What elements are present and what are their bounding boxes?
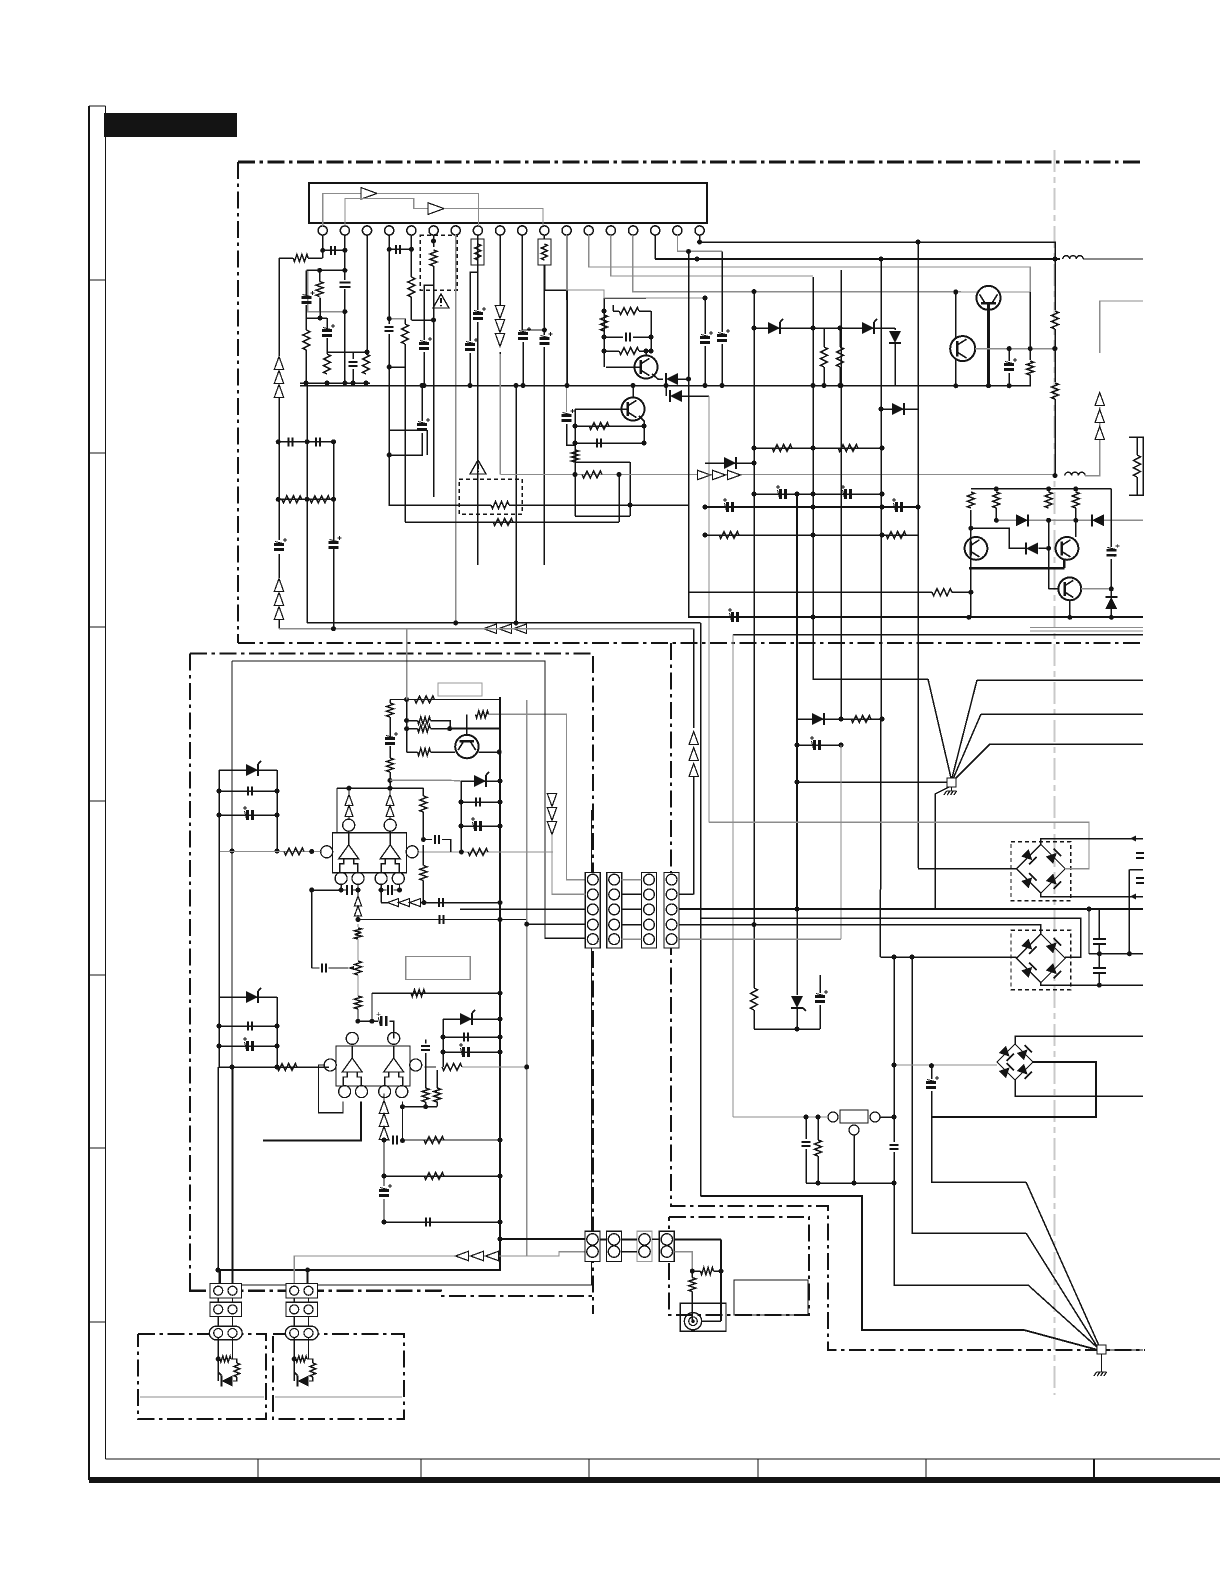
wire — [817, 1117, 819, 1140]
junction — [811, 615, 816, 620]
speaker unit L outline — [138, 1334, 266, 1419]
resistor R18 — [1052, 311, 1059, 329]
wire — [894, 1152, 1028, 1285]
op-amp IC1 pin — [392, 872, 404, 884]
junction — [752, 492, 757, 497]
capacitor C53 — [426, 1218, 430, 1227]
wire — [499, 352, 501, 367]
wire — [665, 386, 667, 397]
junction — [1053, 473, 1058, 478]
capacitor C55 — [322, 964, 326, 973]
junction — [404, 726, 409, 731]
wire pin9 route — [499, 354, 501, 475]
U1 pin 18 — [695, 226, 704, 235]
wire — [357, 915, 359, 920]
junction — [397, 888, 402, 893]
wire pin12 route — [567, 235, 605, 298]
wire — [357, 890, 359, 897]
signal arrows up — [274, 357, 283, 370]
wire — [1088, 909, 1090, 954]
op-amp IC1 element — [339, 833, 359, 859]
wire — [1085, 407, 1100, 476]
adjust label box — [438, 683, 482, 696]
wire — [217, 1067, 219, 1270]
junction — [422, 383, 427, 388]
junction — [838, 383, 843, 388]
resistor R54 — [424, 1173, 444, 1180]
wire — [931, 1062, 1096, 1117]
junction — [752, 446, 757, 451]
wire — [1106, 1349, 1143, 1351]
trimmer resistor R61 — [355, 961, 362, 975]
electrolytic capacitor C32 — [926, 1083, 936, 1088]
junction — [431, 239, 436, 244]
resistor R52 — [434, 1088, 441, 1102]
wire IC2 feedback loop — [319, 1065, 344, 1113]
wire — [1089, 953, 1143, 955]
wire — [309, 1377, 313, 1381]
thermistor TH1 — [471, 239, 484, 265]
main board outline bottom — [238, 642, 1143, 644]
capacitor C44 — [440, 915, 444, 924]
wire — [543, 347, 545, 565]
wire Q2 collector — [632, 386, 634, 399]
border tick — [89, 1147, 106, 1149]
junction — [968, 590, 973, 595]
resistor R24 — [719, 532, 739, 539]
junction — [217, 813, 222, 818]
wire — [693, 629, 695, 728]
junction — [498, 991, 503, 996]
wire — [462, 1066, 527, 1068]
wire — [880, 259, 882, 720]
line filter terminal — [828, 1112, 838, 1122]
resistor R40 — [418, 725, 431, 732]
diode D7 — [1092, 514, 1104, 526]
resistor R26 — [967, 492, 974, 508]
bottom border tick — [420, 1459, 422, 1477]
wire — [219, 851, 321, 853]
U1 pin 17 — [673, 226, 682, 235]
junction — [388, 778, 393, 783]
wire — [319, 270, 321, 281]
signal arrow — [547, 808, 556, 821]
junction — [400, 1104, 405, 1109]
connector CN9 socket — [209, 1326, 242, 1340]
wire — [431, 721, 451, 729]
bottom border tick — [257, 1459, 259, 1477]
wire — [333, 442, 335, 540]
wire — [1110, 489, 1112, 547]
junction — [498, 1138, 503, 1143]
wire — [404, 319, 406, 324]
wire — [326, 338, 328, 354]
wire — [805, 1149, 807, 1183]
wire — [575, 425, 644, 427]
junction — [986, 383, 991, 388]
wire — [307, 1359, 313, 1363]
op-amp IC2 pin — [379, 1086, 391, 1098]
diode D9 — [1105, 597, 1117, 609]
junction — [686, 249, 691, 254]
capacitor C43 — [439, 898, 443, 907]
wire pin6 drop — [433, 235, 435, 247]
wire — [461, 825, 500, 827]
wire — [522, 504, 689, 506]
wire — [812, 277, 814, 617]
resistor R33 — [1134, 455, 1141, 477]
junction — [686, 377, 691, 382]
wire — [389, 366, 405, 368]
bridge rectifier BR3 — [997, 1044, 1033, 1080]
resistor R22 — [772, 445, 792, 452]
op-amp IC1 pin — [321, 846, 333, 858]
junction — [382, 1174, 387, 1179]
junction — [1053, 346, 1058, 351]
electrolytic capacitor C14 — [518, 334, 528, 339]
fan unit outline — [669, 1217, 809, 1315]
wire — [612, 305, 614, 311]
wire — [1110, 609, 1112, 617]
junction — [275, 849, 280, 854]
transistor Q8 — [455, 735, 478, 758]
signal arrow left — [471, 1251, 484, 1260]
wire — [460, 908, 585, 910]
wire — [693, 776, 695, 894]
junction — [811, 505, 816, 510]
wire — [692, 1270, 700, 1272]
junction — [573, 472, 578, 477]
wire — [477, 322, 479, 565]
wire — [1008, 349, 1010, 361]
junction — [811, 492, 816, 497]
wire — [329, 967, 349, 969]
wire — [1136, 477, 1138, 495]
zener diode ZD4 — [246, 764, 258, 776]
junction — [447, 726, 452, 731]
capacitor C3 — [339, 282, 350, 287]
capacitor C6 — [349, 362, 358, 366]
wire — [622, 1251, 638, 1253]
zener diode ZD2 — [862, 322, 874, 334]
wire — [796, 909, 798, 995]
capacitor C47 — [464, 1033, 468, 1042]
wire — [443, 1036, 500, 1038]
resistor R9 — [619, 308, 639, 315]
U1 pin 12 — [562, 226, 571, 235]
junction — [305, 497, 310, 502]
signal arrows down — [495, 334, 504, 347]
wire — [353, 884, 358, 890]
wire — [603, 298, 605, 367]
wire — [305, 350, 307, 383]
signal arrows up — [274, 579, 283, 592]
junction — [305, 1268, 310, 1273]
wire — [218, 997, 220, 1067]
junction — [230, 849, 235, 854]
wire to star ground — [953, 714, 981, 779]
signal arrow — [345, 795, 353, 806]
wire — [633, 336, 651, 338]
wire — [1128, 870, 1130, 954]
junction — [498, 1035, 503, 1040]
wire — [383, 1199, 385, 1222]
junction — [1109, 586, 1114, 591]
wire — [278, 441, 333, 443]
wire — [381, 884, 386, 890]
junction — [441, 1035, 446, 1040]
junction — [441, 1050, 446, 1055]
wire — [1054, 259, 1056, 310]
resistor R60 — [355, 928, 362, 939]
thermistor TH2 — [538, 239, 551, 265]
wire — [622, 893, 642, 895]
resistor R53 — [424, 1137, 444, 1144]
junction — [703, 383, 708, 388]
amp board outline top — [190, 652, 593, 654]
U1 pin 2 — [340, 226, 349, 235]
junction — [811, 383, 816, 388]
speaker unit R inner line — [275, 1396, 402, 1398]
connector CN6 — [607, 1231, 622, 1261]
junction — [355, 1019, 360, 1024]
wire — [348, 788, 350, 795]
wire — [219, 996, 277, 998]
wire to star ground 2 — [1026, 1233, 1098, 1348]
signal arrows up — [274, 371, 283, 384]
junction — [1073, 486, 1078, 491]
wire — [1015, 1080, 1143, 1096]
dual op-amp IC1 outline — [333, 833, 407, 873]
wire — [327, 351, 366, 353]
wire — [823, 328, 825, 347]
wire IC2 pin4 drop — [402, 1102, 404, 1141]
wire — [1015, 1036, 1143, 1044]
wire — [893, 1117, 895, 1142]
bottom border tick — [1093, 1459, 1095, 1483]
connector CN10 plug — [286, 1284, 318, 1298]
junction — [752, 289, 757, 294]
wire AC to BR1 — [918, 868, 1017, 870]
junction — [216, 1357, 221, 1362]
wire — [604, 336, 623, 338]
wire — [652, 1238, 659, 1240]
wire — [443, 1018, 500, 1020]
electrolytic capacitor C19 — [717, 336, 727, 341]
op-amp IC2 pin — [396, 1086, 408, 1098]
wire — [469, 353, 471, 386]
junction — [400, 1138, 405, 1143]
wire — [389, 433, 422, 455]
wire — [650, 311, 652, 351]
wire — [971, 488, 1111, 490]
electrolytic capacitor C12 — [419, 344, 429, 349]
signal arrow — [547, 822, 556, 835]
thermistor TH1 element — [475, 244, 481, 260]
capacitor C50 — [421, 1046, 430, 1050]
signal arrow — [354, 896, 361, 906]
wire — [433, 266, 435, 497]
junction — [379, 888, 384, 893]
junction — [822, 383, 827, 388]
wire pin2 drop — [344, 235, 346, 250]
wire — [431, 751, 456, 753]
resistor R55 — [701, 1268, 714, 1275]
capacitor C31 — [1093, 968, 1106, 973]
wire — [733, 1116, 828, 1118]
wire — [839, 367, 841, 386]
resistor R45 — [468, 849, 488, 856]
continuation mark — [1136, 853, 1144, 858]
wire — [219, 1045, 277, 1047]
ground symbol 2 — [1094, 1372, 1107, 1376]
junction — [811, 326, 816, 331]
junction — [795, 1027, 800, 1032]
wire — [853, 1135, 855, 1183]
wire — [390, 779, 461, 782]
electrolytic capacitor C25 — [733, 612, 738, 622]
electrolytic capacitor C28b — [815, 740, 820, 750]
wire — [436, 1070, 438, 1088]
wire — [319, 297, 321, 312]
wire — [407, 751, 418, 753]
signal arrows up — [274, 385, 283, 398]
wire — [515, 386, 517, 623]
capacitor C16 — [597, 439, 601, 448]
electrolytic capacitor C17 — [1004, 365, 1014, 370]
op-amp IC2 pin — [410, 1059, 422, 1071]
signal arrow — [386, 795, 394, 806]
wire — [344, 250, 346, 280]
junction — [387, 365, 392, 370]
amp board outline bottom — [189, 1291, 592, 1296]
wire row5 feed — [232, 661, 585, 938]
wire — [955, 292, 957, 387]
U1 pin 11 — [540, 226, 549, 235]
op-amp IC2 pin — [324, 1059, 336, 1071]
junction — [498, 1017, 503, 1022]
U1 pin 8 — [473, 226, 482, 235]
connector CN9 pin — [228, 1329, 237, 1338]
wire — [405, 521, 619, 523]
junction — [1046, 546, 1051, 551]
junction — [387, 247, 392, 252]
resistor R57b — [234, 1363, 240, 1377]
wire — [357, 924, 359, 927]
wire — [522, 329, 544, 331]
capacitor C15 — [626, 333, 630, 342]
wire — [813, 617, 928, 679]
electrolytic capacitor C29 — [815, 997, 825, 1002]
connector CN10 pin — [290, 1329, 299, 1338]
left border inner rule — [105, 106, 107, 1459]
junction — [642, 424, 647, 429]
wire — [912, 957, 1026, 1233]
wire — [411, 319, 433, 321]
wire — [219, 790, 277, 792]
amp board outline right — [592, 656, 594, 1314]
wire AC line — [709, 822, 1089, 868]
wire — [1110, 589, 1112, 597]
electrolytic capacitor C13 — [465, 345, 475, 350]
U1 pin 5 — [407, 226, 416, 235]
wire — [404, 367, 406, 522]
junction — [880, 533, 885, 538]
junction — [1007, 346, 1012, 351]
wire — [1110, 559, 1112, 589]
signal arrows up — [689, 764, 698, 777]
connector CN8 — [659, 1231, 674, 1261]
junction — [719, 1269, 724, 1274]
electrolytic capacitor C9 — [473, 314, 483, 319]
junction — [459, 824, 464, 829]
junction — [1073, 518, 1078, 523]
wire BR2 left — [880, 956, 1016, 958]
connector CN3 — [642, 872, 657, 948]
fusible resistor FR1 — [430, 250, 437, 266]
wire — [389, 318, 405, 320]
wire — [575, 461, 630, 463]
junction — [404, 718, 409, 723]
wire — [754, 447, 882, 449]
U1 pin 4 — [385, 226, 394, 235]
junction — [929, 1063, 934, 1068]
wire — [622, 879, 642, 881]
wire Q7 base — [1049, 588, 1059, 590]
signal arrows down — [495, 320, 504, 333]
signal arrow left — [410, 899, 421, 907]
wire IC2 output — [263, 1102, 361, 1141]
capacitor C40 — [435, 835, 439, 844]
junction — [649, 349, 654, 354]
wire — [357, 975, 359, 996]
junction — [1087, 907, 1092, 912]
transistor Q1 — [635, 356, 658, 379]
wire — [384, 1175, 500, 1177]
resistor R6 — [402, 324, 409, 344]
wire — [436, 1102, 438, 1107]
junction — [811, 533, 816, 538]
signal arrow left — [514, 624, 527, 633]
junction — [839, 743, 844, 748]
junction — [320, 248, 325, 253]
wire pin17 route — [678, 235, 723, 251]
signal arrow left — [456, 1251, 469, 1260]
wire — [691, 1271, 693, 1278]
wire — [721, 251, 723, 332]
resistor R57 — [220, 1356, 231, 1362]
junction — [275, 1044, 280, 1049]
junction — [916, 240, 921, 245]
electrolytic capacitor C54 — [417, 425, 427, 430]
wire — [629, 462, 631, 516]
wire — [477, 265, 479, 302]
wire ground return — [701, 1196, 1099, 1350]
junction — [230, 1065, 235, 1070]
resistor R58b — [310, 1363, 316, 1377]
electrolytic capacitor C21 — [846, 489, 851, 499]
junction — [892, 1115, 897, 1120]
junction — [453, 620, 458, 625]
trimmer resistor R37 — [415, 696, 435, 703]
signal arrow left — [486, 1251, 499, 1260]
junction — [459, 850, 464, 855]
zener diode ZD3 — [791, 996, 803, 1008]
wire — [819, 1005, 821, 1029]
wire Q3 emitter — [987, 304, 990, 386]
signal arrows up — [274, 593, 283, 606]
junction — [275, 813, 280, 818]
